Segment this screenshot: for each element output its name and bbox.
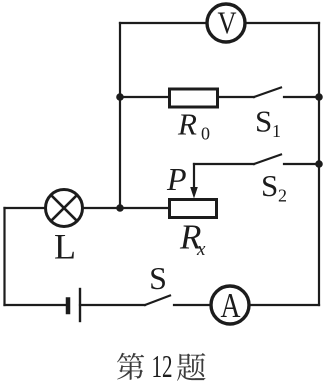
- svg-text:S: S: [149, 260, 167, 296]
- svg-text:P: P: [166, 161, 187, 197]
- svg-text:V: V: [218, 5, 237, 41]
- svg-text:1: 1: [272, 121, 281, 141]
- svg-text:x: x: [196, 239, 206, 260]
- svg-text:0: 0: [201, 124, 210, 144]
- svg-text:2: 2: [278, 186, 287, 206]
- svg-text:R: R: [177, 107, 197, 142]
- svg-text:S: S: [255, 104, 272, 139]
- svg-text:S: S: [261, 168, 278, 203]
- svg-text:12: 12: [152, 348, 173, 384]
- svg-text:L: L: [54, 227, 76, 267]
- svg-text:A: A: [221, 286, 242, 325]
